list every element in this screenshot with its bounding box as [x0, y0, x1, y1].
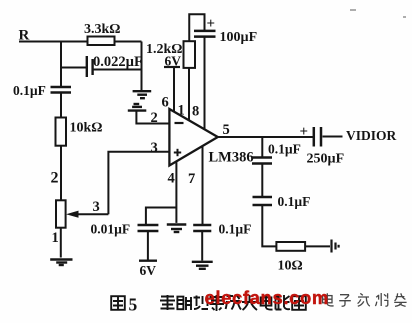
ground (pin 7) [192, 262, 213, 269]
svg-text:0.1µF: 0.1µF [268, 142, 301, 157]
capacitor 250µF polarized [300, 124, 345, 167]
svg-text:0.022µF: 0.022µF [93, 54, 143, 70]
caption 图 5 音频功率放大电路图 (figure caption, CJK drawn as strokes) [111, 295, 306, 315]
svg-text:0.1µF: 0.1µF [219, 222, 252, 237]
svg-text:10Ω: 10Ω [278, 259, 303, 274]
svg-text:6: 6 [162, 95, 169, 111]
wire 10k to pot [60, 146, 62, 201]
wire between output caps [261, 164, 263, 198]
ground inverted (pin 2) [128, 104, 147, 111]
svg-text:8: 8 [192, 104, 199, 120]
svg-text:LM386: LM386 [209, 150, 254, 166]
wire 1.2k top loop [189, 14, 204, 41]
wire pin6 from 6V [173, 68, 175, 112]
svg-text:2: 2 [51, 170, 59, 187]
wire wiper riser to pin3 [108, 152, 169, 215]
svg-text:1.2kΩ: 1.2kΩ [146, 42, 183, 57]
ground rotated (right of 10Ω) [332, 240, 339, 253]
svg-text:7: 7 [188, 171, 195, 187]
svg-text:+: + [207, 16, 216, 32]
svg-text:1: 1 [52, 230, 59, 246]
resistor 10kΩ (vertical box) [56, 118, 103, 146]
wire pin4 down [175, 162, 177, 223]
svg-text:3: 3 [93, 199, 100, 215]
svg-text:3.3kΩ: 3.3kΩ [84, 22, 121, 37]
wire pin2 stem [136, 111, 169, 124]
capacitor 0.01µF [91, 222, 159, 237]
watermark elecfans.com (red) [205, 287, 329, 308]
wire bypass branch to 0.01µF [146, 208, 177, 226]
power 6V label top [164, 54, 181, 69]
capacitor 0.1µF (first, below pin5 wire) [252, 142, 301, 164]
svg-text:1: 1 [178, 103, 185, 119]
speck marks top right [350, 10, 406, 17]
potentiometer body [56, 200, 66, 227]
svg-text:250µF: 250µF [307, 152, 345, 167]
svg-text:6V: 6V [140, 263, 157, 278]
wire junction to 0.022 cap [61, 67, 86, 69]
svg-text:elecfans.com: elecfans.com [205, 287, 329, 308]
capacitor 0.022µF [87, 54, 143, 77]
op-amp U1 LM386 triangle [169, 109, 253, 166]
ground (pin 4) [167, 225, 187, 233]
svg-text:100µF: 100µF [220, 30, 258, 45]
node junction on input wire [60, 42, 62, 88]
wire corner down to ground [141, 42, 143, 91]
svg-text:3: 3 [151, 140, 158, 156]
wire from 3.3k right end to corner [115, 41, 142, 43]
wire pot to ground [60, 228, 62, 258]
capacitor 0.1µF (pin 7 bypass) [193, 222, 251, 237]
ground (below 3.3k right end) [133, 91, 152, 98]
svg-text:4: 4 [168, 171, 175, 187]
watermark 电子发烧友 (site name, CJK drawn as strokes) [323, 293, 407, 306]
resistor 10Ω (horizontal box) [276, 242, 305, 274]
resistor 1.2kΩ (vertical box) [146, 41, 195, 68]
wire cap to 10k [60, 93, 62, 118]
power 6V label bottom [139, 261, 157, 278]
svg-text:5: 5 [129, 295, 138, 315]
svg-text:+: + [300, 124, 309, 140]
wire pin7 down [202, 146, 204, 226]
wire pin5 output [218, 136, 313, 138]
svg-text:2: 2 [151, 110, 158, 126]
wire down and right to 10Ω [262, 205, 276, 246]
wire pin8 from 100µF [204, 37, 206, 130]
svg-text:10kΩ: 10kΩ [70, 121, 103, 136]
op-amp minus symbol [175, 122, 184, 124]
svg-text:0.1µF: 0.1µF [13, 83, 46, 98]
resistor 3.3kΩ (horizontal box) [84, 22, 121, 45]
ground (below pot) [50, 260, 72, 266]
wire output junction drop [261, 137, 263, 158]
wire pin1 to 1.2k [188, 68, 190, 121]
wire input from R to resistor [19, 41, 88, 43]
capacitor 0.1µF (input) [13, 83, 71, 98]
op-amp plus symbol [174, 149, 181, 156]
capacitor 0.1µF (second) [253, 194, 311, 209]
wire 10Ω to chassis ground [305, 245, 330, 247]
wire 250µF to VIDIOR [323, 136, 343, 138]
capacitor 100µF polarized [194, 16, 257, 45]
wire 0.01µF to 6V [147, 231, 149, 260]
svg-text:0.1µF: 0.1µF [278, 194, 311, 209]
svg-text:0.01µF: 0.01µF [91, 222, 131, 237]
wire cap to ground [201, 231, 203, 261]
node R input label [19, 28, 30, 44]
svg-text:5: 5 [223, 122, 230, 138]
wire 0.022 right to corner line [94, 69, 142, 71]
svg-text:VIDIOR: VIDIOR [346, 128, 397, 143]
pot wiper arrow and label 3 [66, 199, 108, 218]
